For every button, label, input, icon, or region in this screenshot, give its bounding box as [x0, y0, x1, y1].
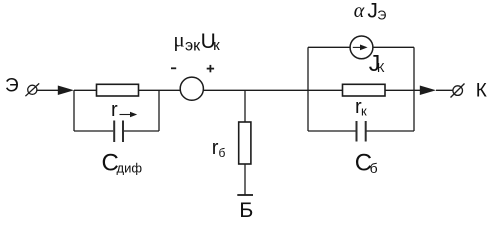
svg-text:Э: Э: [5, 75, 19, 96]
svg-text:μ: μ: [173, 28, 184, 52]
svg-text:r: r: [111, 99, 118, 121]
svg-text:эк: эк: [185, 38, 201, 55]
svg-text:α: α: [354, 0, 365, 22]
svg-text:К: К: [476, 81, 487, 102]
svg-text:Б: Б: [239, 198, 253, 219]
